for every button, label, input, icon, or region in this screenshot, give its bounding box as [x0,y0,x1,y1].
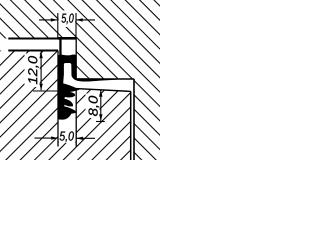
dimension 5,0 bottom: right arrowhead [76,137,83,140]
upper frame bottom face line (left) [8,38,57,40]
dimension 5,0 top: value label [62,14,74,25]
dimension 8,0 right: dimension line [100,90,102,121]
lower frame groove left wall x=58 [57,51,59,147]
upper frame profile section (hatched region) [0,0,160,160]
mask for bottom 5,0 [59,129,75,143]
lower frame profile section (hatched region) [0,51,131,161]
dimension 12,0: value label (rotated) [28,56,39,84]
dimension 12,0 left: dimension line [40,52,42,91]
lower frame groove floor y=142.3 [58,141,76,143]
dimension 5,0 top: extension line left x=57.8 [57,13,59,38]
dimension 12,0: top arrowhead [39,52,42,59]
dimension 5,0 top: extension line right x=76 [75,13,77,38]
dimension 8,0: bottom arrowhead [99,114,102,121]
dimension 12,0: bottom arrowhead [39,84,42,91]
mask for 12,0 [25,54,40,88]
lower frame right face line (slanted) [76,89,131,92]
mask for top 5,0 [59,11,76,28]
dimension 5,0 bottom: dimension line [35,137,58,139]
lower frame top face line (left) [8,50,58,52]
dimension 5,0 top: right arrowhead [76,18,83,21]
dimension 5,0 top: dimension line [39,19,57,21]
dimension 5,0 top: left arrowhead [51,18,58,21]
dimension 8,0: top arrowhead [99,90,102,97]
upper frame lower face line y=79 [76,78,134,80]
dimension 5,0 bottom: left arrowhead [51,136,58,139]
upper frame vertical leg edge x=134 [133,79,135,160]
upper frame step wall line x=76 [75,38,77,79]
mask for 8,0 [86,94,100,119]
gasket anchor foot with barbs [58,89,76,119]
dimension 8,0: extension stub at y=121.5 [96,121,105,123]
rubber gasket seal profile (solid black) [57,37,116,92]
dimension 8,0: value label (rotated) [89,96,100,116]
lower frame right edge x=130.7 [130,91,132,160]
dimension 5,0 bottom: value label [60,131,74,142]
dimension 12,0: extension stub at y=91 [33,90,58,92]
lower frame groove right wall x=76 [75,89,77,147]
